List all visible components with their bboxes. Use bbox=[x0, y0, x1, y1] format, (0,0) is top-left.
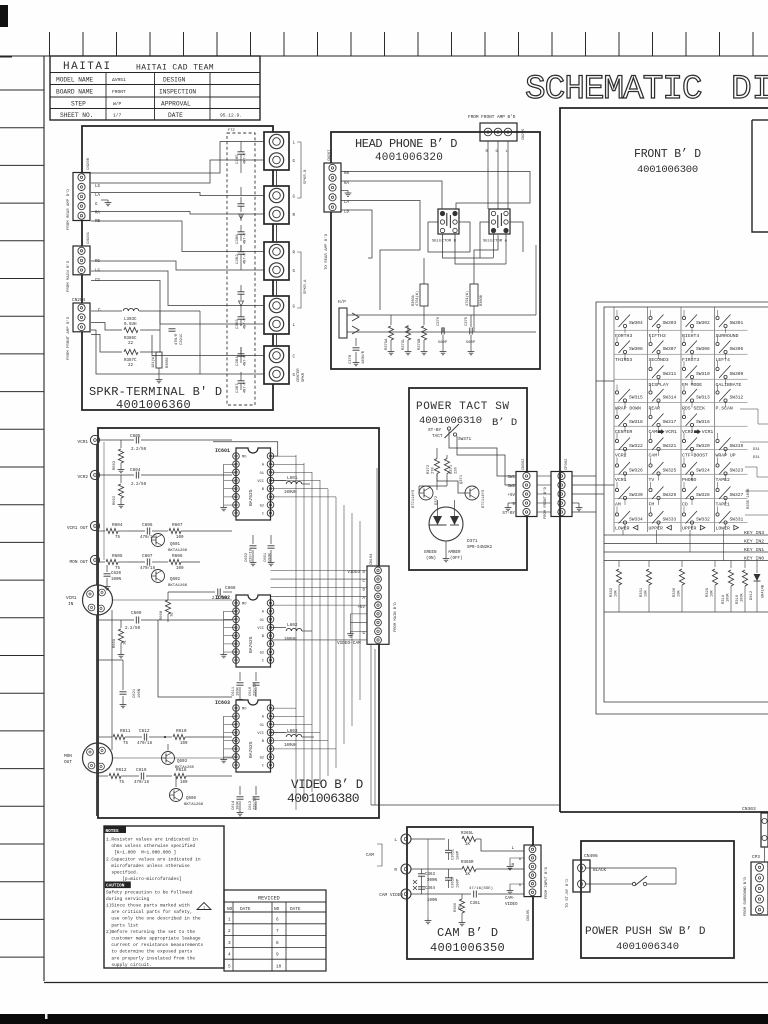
transistor Q371 bbox=[465, 486, 479, 500]
svg-text:75: 75 bbox=[119, 781, 125, 785]
speaker terminal block 5 bbox=[264, 346, 289, 384]
connector CN207 bbox=[324, 163, 341, 212]
svg-text:100N: 100N bbox=[237, 687, 241, 696]
switch SW304 bbox=[615, 316, 618, 319]
svg-text:VIDEO-CAM: VIDEO-CAM bbox=[337, 641, 361, 646]
board outline HEAD PHONE B'D bbox=[331, 132, 540, 369]
svg-text:9: 9 bbox=[276, 953, 279, 958]
svg-text:LB: LB bbox=[344, 211, 350, 215]
transistor Q601 bbox=[152, 534, 165, 547]
svg-text:UPPER: UPPER bbox=[649, 526, 664, 532]
wire IC603 right pins bbox=[271, 707, 297, 709]
svg-text:SW329: SW329 bbox=[663, 492, 677, 498]
svg-text:R602: R602 bbox=[113, 495, 117, 505]
svg-text:THIRD3: THIRD3 bbox=[615, 357, 632, 363]
switch SW334 bbox=[615, 513, 618, 516]
svg-text:RIGHT4: RIGHT4 bbox=[682, 333, 699, 339]
wire key in lines bbox=[604, 534, 768, 536]
svg-text:C611: C611 bbox=[232, 686, 236, 696]
svg-text:LOWER: LOWER bbox=[615, 526, 630, 532]
svg-text:CN104: CN104 bbox=[370, 553, 374, 565]
selector switch SELECTOR A bbox=[489, 209, 510, 234]
svg-text:LG: LG bbox=[95, 185, 101, 189]
svg-text:7: 7 bbox=[276, 929, 279, 934]
capacitor C385 bbox=[238, 151, 245, 153]
svg-text:C361: C361 bbox=[470, 902, 481, 906]
svg-text:SPKR: SPKR bbox=[302, 372, 306, 382]
svg-text:customer make appropriate leak: customer make appropriate leakage bbox=[106, 936, 201, 942]
svg-text:R607: R607 bbox=[172, 523, 183, 528]
ground CN302 pin4 bbox=[508, 502, 516, 504]
transistor Q372 bbox=[419, 486, 433, 500]
svg-text:4: 4 bbox=[228, 953, 231, 958]
svg-text:4N7-R: 4N7-R bbox=[244, 152, 248, 164]
svg-text:Q371: Q371 bbox=[460, 474, 464, 484]
capacitor C383 bbox=[238, 316, 245, 318]
svg-text:VCR2: VCR2 bbox=[682, 429, 694, 435]
svg-text:10K: 10K bbox=[645, 589, 649, 597]
svg-text:SW331: SW331 bbox=[730, 517, 744, 523]
svg-text:2.2/50: 2.2/50 bbox=[131, 482, 147, 487]
capacitor C382 bbox=[238, 251, 245, 253]
svg-text:1: 1 bbox=[228, 917, 231, 922]
svg-text:4001006300: 4001006300 bbox=[637, 164, 698, 176]
diode arrows cam bbox=[413, 880, 417, 890]
svg-text:KEY IN2: KEY IN2 bbox=[744, 538, 764, 544]
svg-text:2)Before returning the set to: 2)Before returning the set to the bbox=[106, 929, 195, 935]
svg-text:R379L: R379L bbox=[402, 338, 406, 350]
svg-text:CN204: CN204 bbox=[72, 298, 86, 303]
svg-text:CAM B’ D: CAM B’ D bbox=[437, 926, 499, 940]
svg-text:47/16(SSE): 47/16(SSE) bbox=[469, 886, 493, 891]
connector CP302 bbox=[551, 472, 572, 517]
switch SW306 bbox=[682, 342, 685, 345]
svg-text:RA: RA bbox=[95, 212, 101, 216]
svg-text:R310: R310 bbox=[736, 594, 740, 604]
capacitor C376 560P bbox=[442, 327, 444, 332]
wire CN205 pins down bbox=[487, 141, 489, 209]
svg-text:OUT: OUT bbox=[64, 760, 72, 765]
svg-text:CN207: CN207 bbox=[328, 150, 332, 161]
svg-text:470/16: 470/16 bbox=[134, 780, 150, 785]
svg-text:VCC: VCC bbox=[257, 480, 264, 484]
svg-text:VCR1: VCR1 bbox=[615, 477, 627, 483]
svg-text:100K: 100K bbox=[741, 593, 745, 602]
svg-text:C363: C363 bbox=[425, 873, 436, 877]
svg-text:SW316: SW316 bbox=[696, 419, 710, 425]
svg-text:(ON): (ON) bbox=[426, 556, 436, 561]
warning triangle bbox=[197, 903, 211, 910]
wire CN208 to SPKR-B bbox=[82, 142, 264, 174]
svg-text:220/10: 220/10 bbox=[249, 549, 254, 562]
switch SW312 bbox=[716, 391, 719, 394]
capacitor C362R 100P bbox=[445, 877, 452, 879]
svg-text:C607: C607 bbox=[142, 554, 153, 559]
svg-text:R331: R331 bbox=[640, 587, 644, 597]
switch SW310 bbox=[682, 367, 685, 370]
resistor R310 100K bbox=[744, 561, 746, 569]
svg-text:C385: C385 bbox=[236, 154, 240, 164]
ground at CN207 bbox=[341, 190, 348, 192]
svg-text:SPKR-A: SPKR-A bbox=[304, 279, 308, 294]
wire selector outputs bbox=[459, 222, 470, 252]
svg-text:TV: TV bbox=[649, 477, 655, 483]
svg-text:specified.: specified. bbox=[106, 870, 138, 876]
svg-text:G2: G2 bbox=[260, 504, 264, 508]
switch SW332 bbox=[682, 513, 685, 516]
svg-text:NOTES: NOTES bbox=[106, 829, 120, 834]
wire video to cam link bbox=[370, 645, 372, 805]
svg-text:2.Capacitor values are indicat: 2.Capacitor values are indicated in bbox=[106, 856, 201, 862]
svg-text:SW333: SW333 bbox=[663, 517, 677, 523]
switch SW309 bbox=[716, 367, 719, 370]
svg-text:RG: RG bbox=[95, 260, 101, 264]
svg-text:FTZ: FTZ bbox=[228, 129, 236, 133]
svg-text:1/7: 1/7 bbox=[113, 113, 122, 119]
svg-text:are properly insulated from th: are properly insulated from the bbox=[106, 955, 195, 961]
svg-text:R379B: R379B bbox=[418, 338, 422, 350]
svg-text:MODEL NAME: MODEL NAME bbox=[56, 77, 93, 84]
svg-text:22: 22 bbox=[128, 364, 134, 368]
svg-text:AM: AM bbox=[615, 502, 621, 508]
svg-text:SW310: SW310 bbox=[696, 371, 710, 377]
switch SW325 bbox=[649, 464, 652, 467]
svg-text:VIDEO D: VIDEO D bbox=[347, 571, 365, 575]
svg-text:Q606: Q606 bbox=[186, 797, 197, 801]
switch SW323 bbox=[716, 464, 719, 467]
svg-text:Safety precaution to be follow: Safety precaution to be followed bbox=[106, 889, 193, 895]
resistor R372 270 bbox=[434, 459, 439, 474]
svg-text:REAR: REAR bbox=[649, 406, 661, 412]
svg-text:CN406: CN406 bbox=[584, 853, 598, 859]
svg-text:D371: D371 bbox=[467, 539, 478, 544]
svg-text:100: 100 bbox=[180, 781, 188, 785]
resistor R380B bbox=[470, 284, 478, 306]
svg-text:Q601: Q601 bbox=[170, 543, 181, 547]
svg-text:BA7625: BA7625 bbox=[248, 636, 254, 653]
svg-text:DATE: DATE bbox=[290, 907, 301, 912]
svg-text:100: 100 bbox=[180, 742, 188, 746]
svg-text:R611: R611 bbox=[120, 729, 131, 734]
rca jack CAM R bbox=[401, 864, 411, 874]
svg-text:FROM REAR AMP B’D: FROM REAR AMP B’D bbox=[66, 189, 71, 230]
svg-text:BA7625: BA7625 bbox=[248, 489, 254, 506]
svg-text:DI: DI bbox=[731, 70, 768, 109]
svg-text:75: 75 bbox=[124, 640, 128, 645]
label SPKR-B bbox=[297, 142, 301, 198]
wire cam video row bbox=[411, 893, 471, 895]
svg-text:FIRST3: FIRST3 bbox=[682, 357, 699, 363]
svg-text:C362R: C362R bbox=[452, 876, 456, 888]
connector CN104 bbox=[367, 566, 389, 644]
switch SW328 bbox=[682, 488, 685, 491]
svg-text:100P: 100P bbox=[457, 878, 461, 888]
wire key columns to key lines bbox=[622, 530, 624, 535]
svg-text:220: 220 bbox=[455, 466, 459, 474]
svg-text:100UH: 100UH bbox=[284, 744, 297, 748]
svg-text:C620: C620 bbox=[111, 572, 122, 576]
wire center speaker feed bbox=[152, 335, 264, 356]
svg-text:ΔVR51: ΔVR51 bbox=[112, 77, 126, 83]
svg-text:R609: R609 bbox=[113, 638, 117, 648]
svg-text:R380B: R380B bbox=[480, 294, 484, 306]
switch SW317 bbox=[649, 415, 652, 418]
switch SW319 bbox=[716, 439, 719, 442]
wire L to CN105 bbox=[481, 839, 524, 851]
svg-text:1: 1 bbox=[203, 907, 205, 911]
resistor R330 10K bbox=[681, 561, 683, 568]
svg-text:TO ST-BY B’D: TO ST-BY B’D bbox=[565, 879, 570, 908]
svg-text:[K=1.000 M=1.000.000 ]: [K=1.000 M=1.000.000 ] bbox=[106, 850, 176, 856]
switch SW314 bbox=[649, 391, 652, 394]
svg-text:SW332: SW332 bbox=[696, 517, 710, 523]
svg-text:NO: NO bbox=[227, 907, 233, 912]
revision table bbox=[224, 890, 326, 971]
svg-text:R371: R371 bbox=[450, 464, 454, 474]
svg-text:GREEN: GREEN bbox=[424, 551, 437, 555]
svg-text:R388C: R388C bbox=[166, 357, 170, 368]
svg-text:FM MODE: FM MODE bbox=[682, 382, 702, 388]
rca jack VCR1 OUT bbox=[90, 521, 99, 530]
svg-text:APPROVAL: APPROVAL bbox=[161, 101, 191, 108]
svg-text:LEFT4: LEFT4 bbox=[716, 357, 731, 363]
svg-text:+6V: +6V bbox=[357, 606, 365, 610]
svg-text:CALIBRATE: CALIBRATE bbox=[716, 382, 742, 388]
svg-text:CN105: CN105 bbox=[527, 909, 531, 921]
svg-text:SELECTOR B: SELECTOR B bbox=[432, 240, 457, 244]
svg-text:CN101: CN101 bbox=[87, 231, 91, 244]
svg-text:VCR1: VCR1 bbox=[77, 440, 88, 445]
wire CN207 to selectors bbox=[341, 172, 530, 210]
svg-text:SW319: SW319 bbox=[730, 443, 744, 449]
wire spkr bus bbox=[160, 310, 200, 312]
capacitor C614 C613 bbox=[239, 786, 241, 795]
svg-text:H/P: H/P bbox=[338, 300, 346, 305]
switch SW303 bbox=[649, 316, 652, 319]
wire matrix column grid lines bbox=[613, 307, 615, 532]
resistor R379B bbox=[423, 315, 425, 325]
wire CN208 to SPKR-B lower bbox=[91, 193, 264, 196]
svg-text:R386C: R386C bbox=[124, 337, 137, 341]
switch SW331 bbox=[716, 513, 719, 516]
svg-text:Q372: Q372 bbox=[435, 495, 439, 505]
svg-text:75: 75 bbox=[115, 567, 121, 571]
board outline FRONT B'D bbox=[560, 108, 768, 812]
svg-text:SW327: SW327 bbox=[730, 492, 744, 498]
capacitor C362L 100P bbox=[411, 838, 445, 840]
svg-text:220/10: 220/10 bbox=[253, 797, 258, 810]
svg-text:supply circuit.: supply circuit. bbox=[106, 962, 152, 968]
svg-text:TAPE2: TAPE2 bbox=[716, 477, 731, 483]
svg-text:FIFTH3: FIFTH3 bbox=[649, 333, 666, 339]
wire CN101 to SPKR-A bbox=[91, 261, 264, 270]
svg-text:VCR1: VCR1 bbox=[665, 429, 677, 435]
svg-text:CP3: CP3 bbox=[752, 855, 760, 860]
svg-text:L: L bbox=[394, 838, 397, 843]
svg-text:IN: IN bbox=[68, 602, 74, 607]
svg-text:FROM SURROUND B’D: FROM SURROUND B’D bbox=[743, 877, 748, 916]
ground cam left rail bbox=[421, 846, 423, 862]
switch SW320 bbox=[682, 439, 685, 442]
svg-text:W/P: W/P bbox=[113, 101, 122, 107]
svg-text:DESIGN: DESIGN bbox=[163, 77, 186, 84]
svg-text:500N: 500N bbox=[269, 553, 273, 562]
wire IC601 top loop bbox=[213, 442, 278, 456]
svg-text:R: R bbox=[394, 868, 397, 873]
switch SW305 bbox=[716, 342, 719, 345]
svg-text:R365L: R365L bbox=[461, 832, 474, 836]
svg-text:4701(W): 4701(W) bbox=[465, 291, 470, 306]
transistor Q606 bbox=[170, 789, 183, 802]
svg-text:parts list: parts list bbox=[106, 922, 139, 928]
border frame left ruler ticks bbox=[0, 90, 44, 957]
capacitor unmarked 2 bbox=[238, 291, 245, 293]
switch SW318 bbox=[615, 415, 618, 418]
svg-text:1.Resistor values are indicate: 1.Resistor values are indicated in bbox=[106, 837, 198, 843]
svg-text:+5V: +5V bbox=[507, 494, 515, 498]
svg-text:BLACK: BLACK bbox=[593, 868, 607, 873]
svg-text:101(W): 101(W) bbox=[151, 355, 156, 368]
svg-text:C384: C384 bbox=[236, 356, 240, 366]
svg-text:microfarades unless otherwise: microfarades unless otherwise bbox=[106, 863, 190, 869]
svg-text:4N7-R: 4N7-R bbox=[244, 354, 248, 366]
selector switch SELECTOR B bbox=[438, 209, 459, 234]
svg-text:CAM VIDEO: CAM VIDEO bbox=[379, 893, 403, 898]
switch SW333 bbox=[649, 513, 652, 516]
inductor L303C bbox=[123, 308, 139, 311]
svg-text:C610: C610 bbox=[249, 686, 253, 696]
wire video bus horizontal to CN104 bbox=[271, 569, 368, 571]
svg-text:TACT: TACT bbox=[432, 434, 443, 439]
board outline SPKR-TERMINAL B'D bbox=[82, 126, 273, 410]
capacitor C363 300N bbox=[421, 869, 423, 872]
svg-text:to determine the exposed parts: to determine the exposed parts bbox=[106, 949, 193, 955]
wire CP302 to key matrix bbox=[572, 475, 596, 477]
svg-text:CAM: CAM bbox=[649, 429, 658, 435]
bottom scan bar bbox=[0, 1014, 768, 1024]
svg-text:DATE: DATE bbox=[168, 112, 183, 119]
svg-text:R332: R332 bbox=[610, 587, 614, 597]
switch SW326 bbox=[615, 464, 618, 467]
svg-text:BKTA1266: BKTA1266 bbox=[168, 549, 188, 553]
switch SW301 bbox=[716, 316, 719, 319]
rca jack VCR2 bbox=[90, 470, 99, 479]
svg-text:4001006310: 4001006310 bbox=[419, 415, 482, 427]
svg-text:C602: C602 bbox=[245, 552, 249, 562]
resistor R609 bbox=[120, 620, 122, 628]
svg-text:C609: C609 bbox=[131, 611, 142, 616]
op-amp IC603 BA7625 bbox=[236, 700, 271, 772]
svg-text:CTF-BOOST: CTF-BOOST bbox=[682, 453, 708, 459]
svg-text:CP302: CP302 bbox=[565, 458, 569, 470]
svg-text:47N/R: 47N/R bbox=[174, 333, 179, 345]
svg-text:(OFF): (OFF) bbox=[450, 556, 463, 561]
svg-text:4001006380: 4001006380 bbox=[287, 791, 359, 806]
capacitor C611 C610 bbox=[239, 672, 241, 681]
svg-text:100N/R: 100N/R bbox=[361, 350, 366, 364]
connector CN302 bbox=[516, 472, 537, 517]
svg-text:5: 5 bbox=[228, 965, 231, 970]
svg-text:R380A: R380A bbox=[412, 294, 416, 306]
wire CN303 down bbox=[764, 847, 766, 864]
wire CN104 ground bus bbox=[350, 614, 352, 631]
svg-text:300N: 300N bbox=[427, 879, 438, 883]
svg-text:100N: 100N bbox=[111, 578, 122, 582]
svg-text:SELECTOR A: SELECTOR A bbox=[483, 240, 508, 244]
resistor R608 bbox=[167, 592, 169, 598]
svg-text:SW308: SW308 bbox=[629, 346, 643, 352]
capacitor C364 100N bbox=[418, 886, 425, 888]
svg-text:CAM: CAM bbox=[366, 853, 374, 858]
svg-text:560P: 560P bbox=[466, 341, 476, 345]
svg-text:SW315: SW315 bbox=[629, 395, 643, 401]
wire terminal column bbox=[276, 170, 278, 186]
wire CN204 row bbox=[91, 310, 122, 312]
capacitor C620 bbox=[106, 565, 108, 572]
svg-text:SW307: SW307 bbox=[663, 346, 677, 352]
svg-text:8: 8 bbox=[276, 941, 279, 946]
wire CN208 RB to terminal bbox=[91, 221, 264, 252]
svg-text:SURROUND: SURROUND bbox=[716, 333, 739, 339]
svg-text:R608: R608 bbox=[160, 610, 164, 620]
notes box bbox=[104, 826, 224, 968]
resistor R603 bbox=[120, 440, 122, 448]
svg-text:C391C: C391C bbox=[180, 333, 184, 345]
svg-text:100UH: 100UH bbox=[284, 491, 297, 495]
svg-text:FM: FM bbox=[649, 502, 655, 508]
wire matrix caption separators bbox=[615, 329, 648, 331]
transistor Q603 bbox=[162, 752, 175, 765]
svg-text:use only the one described in: use only the one described in the bbox=[106, 916, 201, 922]
svg-text:10K: 10K bbox=[711, 589, 715, 597]
svg-text:INSPECTION: INSPECTION bbox=[159, 89, 196, 96]
capacitor C384 bbox=[238, 353, 245, 355]
wire din jack rows bbox=[112, 595, 232, 597]
svg-text:3: 3 bbox=[228, 941, 231, 946]
svg-text:560P: 560P bbox=[438, 341, 448, 345]
svg-text:CD: CD bbox=[682, 502, 688, 508]
wire transistor bases bbox=[436, 474, 438, 491]
matrix enclosure outer bbox=[596, 302, 768, 714]
switch SW307 bbox=[649, 342, 652, 345]
svg-text:RA: RA bbox=[344, 182, 350, 186]
rca jack VCR1 bbox=[90, 435, 99, 444]
svg-text:SW330: SW330 bbox=[629, 492, 643, 498]
resistor R366 75 bbox=[461, 894, 463, 900]
svg-text:R604: R604 bbox=[112, 523, 123, 528]
svg-text:TO REAR AMP B’D: TO REAR AMP B’D bbox=[324, 233, 329, 270]
border frame top ruler line bbox=[0, 55, 768, 57]
svg-text:10: 10 bbox=[276, 965, 282, 970]
svg-text:C605: C605 bbox=[130, 434, 141, 439]
svg-text:Q603: Q603 bbox=[177, 760, 188, 764]
ground CP302 pin4 bbox=[572, 502, 579, 504]
svg-text:O1: O1 bbox=[260, 472, 265, 476]
svg-text:22: 22 bbox=[128, 342, 134, 346]
svg-text:R603: R603 bbox=[113, 460, 117, 470]
svg-text:L303C: L303C bbox=[124, 318, 137, 322]
svg-text:4001006350: 4001006350 bbox=[430, 941, 505, 955]
svg-text:C601: C601 bbox=[264, 552, 268, 562]
svg-text:[p=micro-microfarades]: [p=micro-microfarades] bbox=[106, 876, 182, 882]
wire IC601 right pins bbox=[271, 455, 297, 457]
svg-text:C376: C376 bbox=[437, 316, 441, 326]
svg-text:4N7-R: 4N7-R bbox=[244, 252, 248, 264]
svg-text:IC603: IC603 bbox=[215, 700, 230, 706]
svg-text:ST-BY: ST-BY bbox=[428, 428, 442, 433]
matrix enclosure inner bbox=[604, 307, 768, 702]
svg-text:SW304: SW304 bbox=[629, 320, 643, 326]
